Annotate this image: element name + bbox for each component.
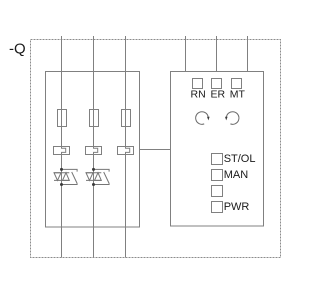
svg-text:ST/OL: ST/OL [224, 153, 256, 165]
svg-text:MAN: MAN [224, 169, 249, 181]
svg-text:-Q: -Q [9, 41, 26, 58]
svg-text:ER: ER [211, 89, 226, 101]
svg-text:MT: MT [230, 89, 246, 101]
svg-text:RN: RN [191, 89, 206, 101]
svg-text:PWR: PWR [224, 201, 250, 213]
